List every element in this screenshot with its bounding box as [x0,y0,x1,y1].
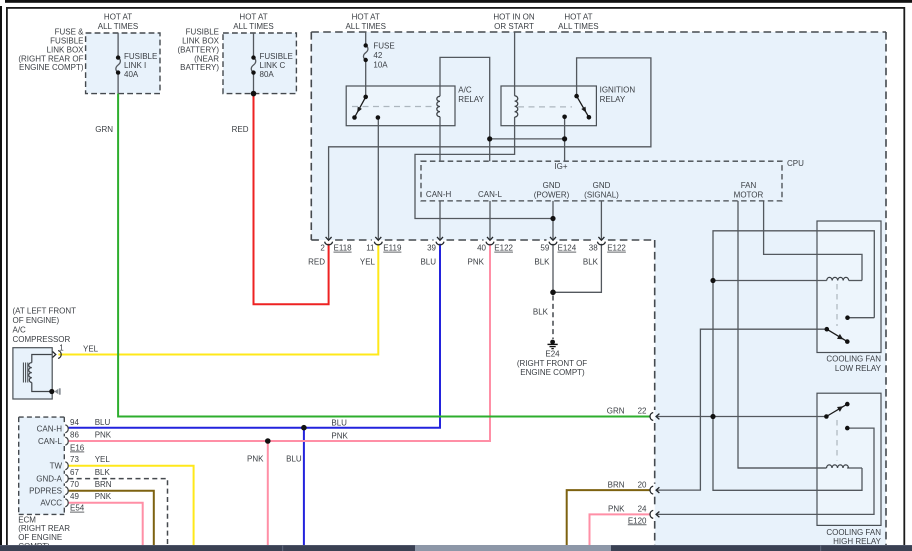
svg-text:22: 22 [638,407,647,416]
wire BLU: pin 39 to ECM CAN-H [68,244,440,428]
wire: ignition relay contact to CPU IG+ [564,117,566,161]
svg-text:FUSIBLE: FUSIBLE [260,52,293,61]
svg-text:IGNITION: IGNITION [600,86,636,95]
link dashes [836,284,838,326]
A/C compressor internals (clutch coil) [23,351,61,395]
pin 40 E122 arrow [487,237,493,240]
ECM connector box (dashed, with gaps at pins) [19,417,65,514]
svg-text:BLK: BLK [95,468,111,477]
svg-text:E122: E122 [494,244,513,253]
svg-text:73: 73 [70,455,79,464]
components layer [23,43,849,518]
E120 pin labels [607,407,647,526]
wire YEL: pin 11 to A/C compressor pin 1 [58,244,378,355]
pin 24 arrow [656,512,659,518]
svg-text:FAN: FAN [741,181,757,190]
wire: CPU CAN-H to pin 39 [439,201,441,239]
svg-text:86: 86 [70,430,79,439]
wire: fuse 42 feed down to A/C relay pivot [365,32,367,45]
compressor pin 1 connector [53,351,62,359]
svg-text:E118: E118 [334,244,353,253]
cooling fan high relay box [817,393,881,525]
svg-text:RELAY: RELAY [600,95,626,104]
svg-text:LOW RELAY: LOW RELAY [835,364,882,373]
wire: low relay coil line [713,280,827,282]
svg-text:A/C: A/C [13,325,27,334]
junction node: IG+ branch right [562,136,567,141]
wire GRN: fusible link I to E120 pin 22 [118,94,649,417]
svg-text:CAN-H: CAN-H [426,190,452,199]
wire: BLK pin 38 down and left to ground junction [553,244,601,292]
wire: ignition relay coil bottom loop to GND(POWER) node [415,117,553,219]
svg-text:GND: GND [593,181,611,190]
wire: GRN pin 22 to high relay pivot [657,416,827,418]
svg-text:E119: E119 [383,244,402,253]
svg-text:OF ENGINE): OF ENGINE) [13,316,60,325]
scrollbar [0,545,912,551]
svg-text:(NEAR: (NEAR [194,54,219,63]
wire: feed bus from low relay contact loop [713,231,874,491]
svg-text:OF ENGINE: OF ENGINE [18,533,62,542]
svg-text:BLK: BLK [533,308,549,317]
svg-text:(RIGHT FRONT OF: (RIGHT FRONT OF [517,359,587,368]
engine room harness box (big blue dashed region) [311,32,886,551]
svg-text:HOT AT: HOT AT [239,12,267,21]
svg-text:HOT AT: HOT AT [564,12,592,21]
link dashes [836,420,838,461]
svg-text:AVCC: AVCC [40,499,62,508]
ignition relay link dashes [518,106,572,108]
svg-text:PNK: PNK [247,455,264,464]
ECM pin sockets [65,425,68,507]
pin 22 arrow [656,414,659,420]
svg-text:RED: RED [232,125,249,134]
svg-text:ALL TIMES: ALL TIMES [345,22,385,31]
pin 11 E119 arrow [375,237,381,240]
junction node: GND(POWER) loop [550,216,555,221]
A/C relay coil (vertical, bumps left) [437,96,440,116]
svg-text:COMPRESSOR: COMPRESSOR [13,335,71,344]
svg-text:GRN: GRN [95,125,113,134]
svg-text:BRN: BRN [95,480,112,489]
svg-text:59: 59 [540,244,549,253]
svg-text:ECM: ECM [18,515,36,524]
wire: feed into fusible link I [117,33,119,58]
pin 20 arrow [656,487,659,493]
switch [826,404,847,416]
pin 39 arrow [437,237,443,240]
svg-text:IG+: IG+ [554,162,567,171]
connector E120 pin arrows [650,413,659,519]
fuse 42 symbol [363,43,368,62]
svg-text:E54: E54 [70,504,85,513]
junction dots on feed bus [710,278,715,283]
svg-text:FUSE: FUSE [373,41,394,50]
wire: CPU GND(SIGNAL) to pin 38 [600,201,602,239]
wire YEL: ECM TW pin 73 [68,466,193,545]
svg-text:39: 39 [427,244,436,253]
wire BRN: ECM PDPRES pin 70 [68,491,154,545]
svg-text:(POWER): (POWER) [534,190,570,199]
svg-text:PNK: PNK [331,432,348,441]
wire: CPU CAN-L to pin 40 [489,201,491,239]
svg-text:GND: GND [543,181,561,190]
junction dot: PNK branch [265,438,271,444]
svg-text:COOLING FAN: COOLING FAN [826,355,881,364]
svg-text:HOT AT: HOT AT [352,12,380,21]
svg-text:LINK I: LINK I [124,61,146,70]
svg-text:40A: 40A [124,70,139,79]
cooling fan low relay internals [710,277,849,419]
svg-text:E24: E24 [545,350,560,359]
coil bumps [827,277,849,280]
svg-text:(RIGHT REAR: (RIGHT REAR [18,524,70,533]
fusible link I symbol [116,55,121,74]
svg-text:ALL TIMES: ALL TIMES [233,22,273,31]
wire: IG+ branch [490,138,565,140]
A/C compressor box [13,348,52,399]
ignition relay box [501,86,596,126]
wire: CPU GND(POWER) to pin 59 [552,201,554,239]
ECM wire colors [95,418,112,501]
wire BLU: branch to bottom [303,428,305,545]
svg-text:MOTOR: MOTOR [734,190,764,199]
wire BRN: E120 pin 20 to bottom [567,490,650,545]
wire: low relay contact stub [848,317,875,319]
connector row edge E118/E119/E122/E124 (dashed with gaps at pins) [311,239,654,241]
junction dot: BLU branch [301,425,307,431]
cooling fan high relay internals [824,402,849,468]
svg-text:LINK BOX: LINK BOX [47,45,85,54]
svg-text:(SIGNAL): (SIGNAL) [584,190,619,199]
cooling fan low relay box [817,221,881,353]
wire color labels under connector row [308,258,599,267]
svg-text:RED: RED [308,258,325,267]
svg-text:PNK: PNK [608,505,625,514]
svg-text:PNK: PNK [95,492,112,501]
wire PNK: pin 40 to ECM CAN-L [68,244,490,441]
svg-text:E124: E124 [558,244,577,253]
switch [827,329,848,341]
svg-text:1: 1 [59,344,64,353]
wire: high relay coil line [738,467,827,469]
svg-text:80A: 80A [260,70,275,79]
wire PNK: branch to bottom [267,441,269,545]
svg-text:YEL: YEL [95,455,111,464]
wire: CPU FAN MOTOR right pin to low relay coil right [764,201,862,281]
svg-text:PNK: PNK [95,430,112,439]
svg-text:BLK: BLK [534,258,550,267]
svg-text:BLU: BLU [331,418,347,427]
svg-text:GRN: GRN [607,407,625,416]
connector pin arrows (top row) [325,237,606,245]
wire: BLK pin 59 down to ground junction [552,244,554,292]
svg-text:E120: E120 [628,516,647,525]
ECM pin labels [29,425,63,508]
svg-text:HOT AT: HOT AT [104,12,132,21]
svg-text:ENGINE COMPT): ENGINE COMPT) [520,368,585,377]
svg-text:TW: TW [50,462,63,471]
svg-text:70: 70 [70,480,79,489]
connector row labels [320,244,626,253]
svg-text:HOT IN ON: HOT IN ON [493,12,534,21]
svg-text:FUSIBLE: FUSIBLE [186,28,219,37]
svg-text:49: 49 [70,492,79,501]
fuse & fusible link box (right rear of engine compt) [86,33,160,94]
svg-text:E122: E122 [607,244,626,253]
svg-text:ENGINE COMPT): ENGINE COMPT) [19,63,84,72]
svg-text:LINK C: LINK C [260,61,286,70]
svg-text:67: 67 [70,468,79,477]
junction node: BLK ground [550,290,556,296]
wire: A/C relay contact down to pin 11 [377,118,379,240]
case ground dot and tick [49,389,54,394]
svg-text:FUSE &: FUSE & [55,28,85,37]
connector E120 edge (dashed vertical with gaps at pins) [654,240,656,551]
svg-text:(BATTERY): (BATTERY) [178,45,220,54]
svg-text:BLU: BLU [95,418,111,427]
svg-text:OR START: OR START [494,22,534,31]
fusible link C symbol [251,55,257,96]
svg-text:BLU: BLU [286,455,302,464]
wire PNK: E120 pin 24 to bottom [590,514,650,545]
svg-text:BLK: BLK [583,258,599,267]
ignition relay switch [562,94,591,120]
ECM pin numbers [70,418,79,501]
svg-text:ALL TIMES: ALL TIMES [98,22,138,31]
wire: HOT IN ON OR START feed down to ignition relay coil [514,32,516,96]
wire: ignition relay pivot feed loop to E118 pin 2 [329,58,651,239]
junction dot at box bottom [251,91,257,97]
svg-text:YEL: YEL [360,258,376,267]
svg-text:CAN-L: CAN-L [38,437,63,446]
pin 2 E118 arrow [326,237,332,240]
coil bumps [827,465,849,468]
pin 59 E124 arrow [550,237,556,240]
wire: A/C relay coil bottom to CPU [439,117,441,162]
colored wires [58,94,649,545]
wire: CPU FAN MOTOR left pin to high relay coil [738,201,827,468]
svg-text:10A: 10A [373,61,388,70]
svg-text:(RIGHT REAR OF: (RIGHT REAR OF [18,54,83,63]
svg-text:CAN-L: CAN-L [478,190,503,199]
fusible link box (battery) [223,33,296,94]
wire RED: fusible link C loop to pin 2 [254,94,329,305]
svg-text:40: 40 [477,244,486,253]
pin 38 E122 arrow [598,237,604,240]
svg-text:HIGH RELAY: HIGH RELAY [833,537,882,546]
svg-text:20: 20 [638,480,647,489]
ignition relay coil (vertical, bumps right) [515,96,518,117]
junction node: IG+ branch left [487,136,492,141]
svg-text:PDPRES: PDPRES [29,487,62,496]
A/C relay box [346,86,455,126]
wire BLK dashed: ground junction to E24 [552,296,554,340]
svg-text:(AT LEFT FRONT: (AT LEFT FRONT [13,306,77,315]
CPU box (dashed) [421,161,782,201]
svg-text:BATTERY): BATTERY) [180,63,219,72]
svg-text:24: 24 [638,505,647,514]
svg-text:ALL TIMES: ALL TIMES [558,22,598,31]
svg-text:RELAY: RELAY [458,95,484,104]
svg-text:FUSIBLE: FUSIBLE [50,37,83,46]
svg-text:38: 38 [589,244,598,253]
svg-text:LINK BOX: LINK BOX [182,37,220,46]
ground E24 symbol [548,340,558,349]
svg-text:FUSIBLE: FUSIBLE [124,52,157,61]
wire PNK: ECM AVCC pin 49 [68,503,142,545]
svg-text:2: 2 [320,244,325,253]
svg-text:COOLING FAN: COOLING FAN [826,528,881,537]
wire: feed into fusible link C [253,33,255,58]
wire BLK dashed: ECM GND-A pin 67 [68,479,167,545]
wire: low relay pivot to BRN pin 20 [657,329,827,490]
wire: high relay contact to PNK pin 24 [657,428,874,514]
svg-text:E16: E16 [70,444,85,453]
svg-text:BLU: BLU [420,258,436,267]
svg-text:A/C: A/C [458,86,472,95]
svg-text:YEL: YEL [83,345,99,354]
svg-text:BRN: BRN [608,480,625,489]
svg-text:11: 11 [366,244,375,253]
A/C relay link dashes [352,106,434,108]
svg-text:42: 42 [373,51,382,60]
wire: A/C relay coil top loop to IG+ node [440,57,490,161]
svg-text:GND-A: GND-A [36,474,62,483]
svg-text:94: 94 [70,418,79,427]
svg-text:CPU: CPU [787,159,804,168]
A/C relay switch [352,95,380,120]
svg-text:PNK: PNK [468,258,485,267]
svg-text:CAN-H: CAN-H [37,425,63,434]
